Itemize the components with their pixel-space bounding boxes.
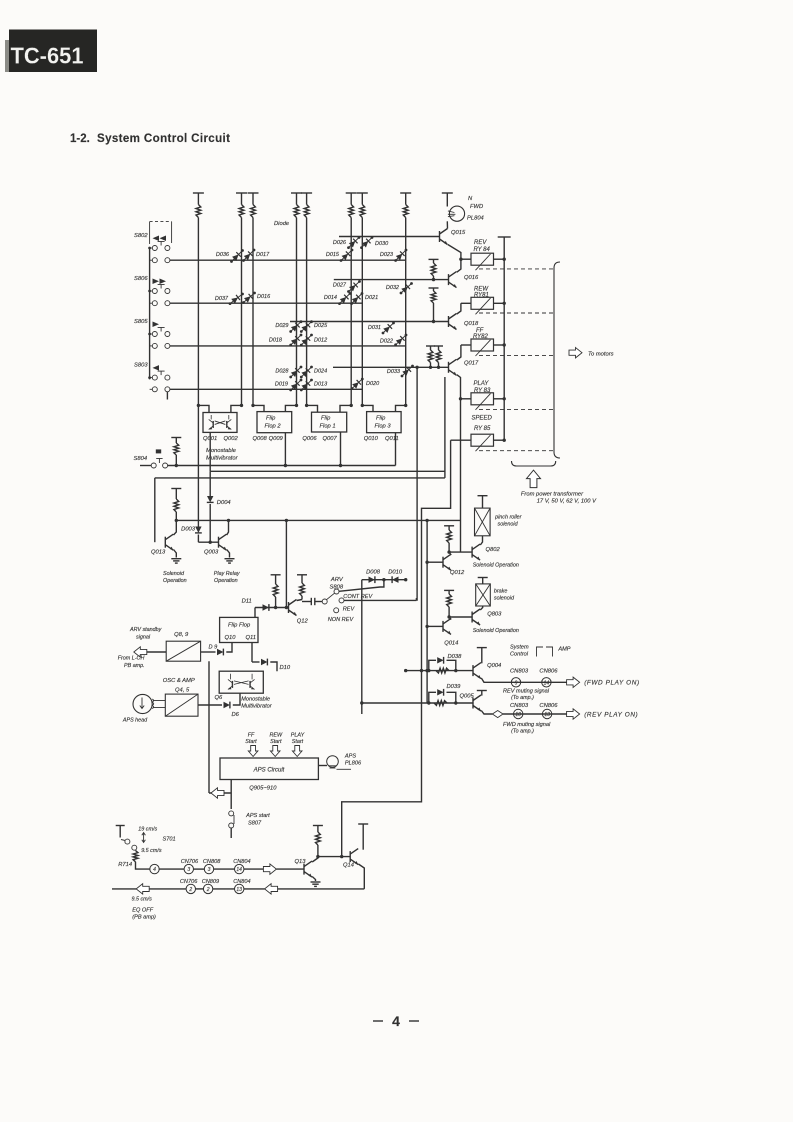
diode D026 — [349, 238, 360, 248]
svg-text:4: 4 — [392, 1013, 400, 1029]
svg-text:D017: D017 — [256, 252, 270, 258]
wire Q012 collector node to Q802 base — [449, 551, 472, 553]
wire RY84 leads — [461, 258, 471, 260]
svg-text:D11: D11 — [242, 599, 252, 605]
wire S808 arm — [327, 593, 335, 600]
svg-text:14: 14 — [544, 680, 550, 686]
wire Q803 collector to solenoid — [480, 606, 482, 610]
svg-text:REV muting signal: REV muting signal — [503, 689, 550, 695]
connector CN706 pin 4 — [150, 864, 159, 873]
svg-text:D013: D013 — [314, 382, 328, 388]
svg-text:(REV PLAY ON): (REV PLAY ON) — [584, 712, 638, 719]
dashed armature line RY84 — [479, 268, 554, 270]
svg-text:D012: D012 — [314, 338, 327, 344]
wire from collector row down to Q12 base — [285, 520, 287, 607]
transistor Q802 — [471, 547, 473, 558]
transistor Q013 — [164, 537, 166, 548]
svg-text:Operation: Operation — [214, 578, 238, 584]
resistor collector load of Q012 — [444, 525, 454, 527]
resistor feeding Q016 base — [429, 258, 439, 260]
transistor Q003 — [218, 537, 220, 548]
arrow from power transformer — [527, 470, 541, 488]
wire FF1 top leads — [307, 405, 318, 412]
diode D024 — [301, 367, 311, 377]
svg-text:Q6: Q6 — [215, 695, 224, 701]
resistor on matrix column 1 — [196, 205, 201, 218]
svg-text:13: 13 — [236, 887, 242, 893]
wire MM1 bottom lead — [209, 432, 211, 471]
wire Q014 collector — [449, 617, 451, 620]
svg-text:PLAY: PLAY — [291, 732, 305, 738]
wire row 4 (S803 line) — [170, 388, 362, 390]
wire row 2 (S806 FF line) — [170, 302, 362, 304]
svg-text:solenoid: solenoid — [494, 596, 515, 602]
ground below Q13 — [311, 881, 321, 883]
svg-text:Q008: Q008 — [253, 436, 268, 442]
supply cap of matrix column 5 — [301, 192, 312, 194]
wire FF2 top leads — [253, 405, 264, 411]
svg-text:Q016: Q016 — [464, 275, 479, 281]
diode D015 — [341, 250, 352, 261]
svg-text:Q802: Q802 — [486, 547, 501, 553]
svg-text:APS start: APS start — [245, 813, 270, 819]
diode D028 — [291, 367, 301, 377]
svg-text:EQ OFF: EQ OFF — [132, 908, 153, 914]
svg-text:Q4, 5: Q4, 5 — [175, 688, 190, 694]
diode D11 — [263, 604, 269, 610]
resistor on matrix column 6 — [349, 205, 354, 218]
wire matrix column 6 vertical — [350, 193, 352, 205]
svg-text:Q015: Q015 — [451, 230, 466, 236]
connector row 2 wire — [278, 888, 365, 890]
svg-text:OSC & AMP: OSC & AMP — [163, 678, 195, 684]
wire matrix column 1 vertical — [197, 193, 199, 205]
svg-text:Q010: Q010 — [364, 436, 379, 442]
svg-text:D020: D020 — [366, 381, 380, 387]
svg-text:brake: brake — [494, 589, 508, 595]
transistor Q017 — [448, 362, 450, 373]
svg-text:CONT REV: CONT REV — [343, 594, 373, 600]
svg-text:CN804: CN804 — [233, 879, 250, 885]
wire Q13 emitter to ground — [312, 877, 315, 882]
wire CONT contact to D008/D010 junction — [339, 580, 384, 592]
wire row 3 (S805 PLAY line) — [170, 345, 406, 347]
svg-text:Q004: Q004 — [487, 663, 501, 669]
svg-text:Flip: Flip — [321, 416, 331, 422]
svg-text:Monostable: Monostable — [241, 697, 270, 703]
resistor above Q13 collector — [313, 825, 323, 827]
wire Q003 emitter to ground — [227, 550, 230, 558]
svg-text:Q007: Q007 — [323, 436, 338, 442]
svg-text:D022: D022 — [380, 339, 393, 345]
arrow ARV standby input — [134, 647, 147, 657]
wire Q013 base drop — [154, 478, 156, 542]
arrow REV PLAY ON — [567, 709, 580, 719]
wire Q003 collector — [227, 520, 229, 535]
svg-text:NON REV: NON REV — [328, 617, 355, 623]
svg-text:System Control Circuit: System Control Circuit — [97, 132, 230, 145]
svg-text:13: 13 — [544, 712, 550, 718]
svg-text:(To amp.): (To amp.) — [511, 729, 534, 735]
svg-text:Diode: Diode — [274, 221, 290, 227]
svg-text:Q11: Q11 — [246, 635, 257, 641]
transistor Q004 — [472, 665, 474, 676]
diode D038 speedup branch — [429, 660, 436, 670]
wire APS head to OSC box — [153, 700, 166, 702]
TC-651 model label box — [9, 30, 97, 73]
svg-text:solenoid: solenoid — [498, 522, 519, 528]
svg-text:D019: D019 — [275, 382, 288, 388]
supply cap of matrix column 2 — [236, 192, 247, 194]
svg-text:Q011: Q011 — [385, 436, 399, 442]
svg-text:S806: S806 — [134, 276, 148, 282]
wire row A to Q015 base — [339, 236, 440, 238]
resistor on matrix column 5 — [304, 205, 309, 218]
resistor on matrix column 3 — [251, 205, 256, 218]
supply cap of lamp PL804 column — [442, 192, 453, 194]
svg-text:Q803: Q803 — [487, 612, 502, 618]
transistor Q14 — [349, 851, 351, 862]
diode D019 — [291, 380, 301, 390]
svg-text:FWD muting signal: FWD muting signal — [503, 722, 551, 728]
supply cap above Q14 collector — [358, 823, 368, 825]
resistor above S804 row — [171, 437, 181, 439]
svg-text:Control: Control — [510, 652, 529, 658]
svg-text:D033: D033 — [387, 369, 401, 375]
wire REV riser x416.4 — [415, 367, 418, 600]
svg-text:pinch roller: pinch roller — [494, 515, 522, 521]
wire play path x460.5 Q017 emitter to Q802 node — [457, 375, 461, 552]
wire common row y478 — [155, 477, 445, 479]
svg-text:D037: D037 — [215, 296, 229, 302]
svg-text:D028: D028 — [275, 369, 289, 375]
APS head symbol — [133, 694, 152, 713]
svg-text:D039: D039 — [447, 684, 462, 690]
svg-text:Q14: Q14 — [343, 863, 354, 869]
svg-text:S701: S701 — [163, 837, 176, 843]
svg-text:Start: Start — [292, 739, 304, 745]
svg-text:(FWD PLAY ON): (FWD PLAY ON) — [584, 680, 640, 687]
svg-text:CN806: CN806 — [539, 669, 558, 675]
wire collector row y520 — [176, 519, 460, 521]
svg-text:D032: D032 — [386, 285, 399, 291]
svg-text:D021: D021 — [365, 295, 378, 301]
brake solenoid — [478, 577, 488, 579]
switch S807 APS start — [229, 811, 234, 816]
diode D008 — [369, 577, 375, 583]
svg-text:Q905~910: Q905~910 — [249, 786, 277, 792]
svg-text:9: 9 — [515, 680, 518, 686]
wire Q017 collector to RY82 — [457, 345, 461, 360]
wire Q015 emitter to RY84 lead — [448, 245, 461, 260]
svg-text:Flop 3: Flop 3 — [375, 424, 392, 430]
svg-text:APS Circuit: APS Circuit — [253, 768, 285, 774]
svg-text:Q017: Q017 — [464, 361, 479, 367]
diode D021 — [352, 294, 363, 304]
svg-text:S803: S803 — [134, 363, 148, 369]
svg-text:S807: S807 — [248, 821, 262, 827]
wire column x198 down to D003 — [197, 405, 199, 526]
wire Q005 base row — [362, 702, 473, 704]
diode D004 — [207, 496, 213, 502]
svg-text:(PB amp): (PB amp) — [132, 915, 156, 921]
arrow on row 1 — [263, 864, 276, 874]
diode D6 — [198, 704, 222, 706]
svg-text:Multivibrator: Multivibrator — [241, 704, 273, 710]
diode D012 — [301, 335, 311, 345]
wire matrix column 7 vertical — [361, 193, 363, 205]
resistors feeding Q017 base (two parallel) — [426, 345, 435, 347]
svg-text:D025: D025 — [314, 323, 328, 329]
resistor above D11 line — [271, 574, 281, 576]
svg-text:Q13: Q13 — [295, 859, 307, 865]
svg-text:S808: S808 — [330, 585, 344, 591]
coupling capacitor — [302, 601, 311, 603]
svg-text:Solenoid Operation: Solenoid Operation — [473, 563, 519, 569]
wire FF2 bottom lead — [284, 433, 286, 466]
diamond junction on REV PLAY line — [492, 711, 503, 718]
svg-text:D016: D016 — [257, 294, 271, 300]
svg-text:Q006: Q006 — [302, 436, 317, 442]
supply cap of matrix column 3 — [248, 192, 259, 194]
diode D014 — [340, 294, 351, 304]
wire Q004 base row — [406, 670, 473, 672]
svg-text:To motors: To motors — [588, 352, 614, 358]
wire S804 row — [168, 465, 396, 467]
wire Q13 collector — [312, 857, 318, 862]
resistor collector load of Q014 — [444, 589, 454, 591]
wire matrix column 8 vertical — [405, 193, 407, 205]
wire Q013 emitter to ground — [174, 550, 177, 558]
diode D030 — [362, 238, 373, 248]
svg-text:signal: signal — [136, 635, 151, 641]
arrow on row 2 left — [136, 884, 149, 894]
svg-text:RY 84: RY 84 — [474, 247, 491, 253]
svg-text:10: 10 — [515, 712, 521, 718]
supply cap of matrix column 1 — [193, 192, 204, 194]
diode D017 — [244, 250, 255, 261]
svg-text:D 9: D 9 — [209, 645, 218, 651]
arrow FWD PLAY ON — [567, 677, 580, 687]
svg-text:PLAY: PLAY — [474, 381, 490, 387]
diode D016 — [244, 293, 255, 303]
svg-text:D024: D024 — [314, 369, 327, 375]
monostable multivibrator box Q001 Q002 — [203, 413, 237, 433]
svg-text:S804: S804 — [134, 456, 148, 462]
wire RY82 leads — [461, 344, 471, 346]
diode D033 — [402, 366, 413, 376]
wire RY83 leads — [461, 398, 472, 400]
svg-text:Q005: Q005 — [460, 694, 475, 700]
wire stub below S803 — [166, 392, 168, 400]
svg-text:FWD: FWD — [470, 204, 483, 210]
svg-text:D031: D031 — [368, 325, 381, 331]
wire REV contact line to riser — [344, 599, 416, 601]
wire emitters vertical x444.9 — [444, 377, 446, 478]
flip flop 2 box — [257, 412, 292, 433]
svg-text:CN706: CN706 — [181, 859, 199, 865]
resistor on matrix column 4 — [294, 205, 299, 218]
wire Q016 collector to RY84 — [457, 259, 461, 272]
wire matrix column 2 vertical — [241, 193, 243, 205]
svg-text:From power transformer: From power transformer — [521, 492, 584, 498]
diode D039 speedup branch — [429, 692, 436, 703]
svg-text:3: 3 — [187, 867, 190, 873]
svg-text:R714: R714 — [118, 862, 132, 868]
svg-text:Start: Start — [270, 739, 282, 745]
diode D031 — [383, 323, 394, 333]
svg-text:ARV: ARV — [330, 577, 344, 583]
svg-text:Q003: Q003 — [204, 550, 219, 556]
transistor Q014 — [442, 621, 444, 632]
wire RY81 leads — [461, 302, 471, 304]
wire matrix column 4 vertical — [296, 193, 298, 205]
wire amp output down left side — [208, 661, 210, 793]
arrow on row 2 right — [265, 884, 278, 894]
dashed armature line RY82 — [479, 354, 554, 356]
wire Q14 emitter down to row 2 — [358, 864, 364, 889]
svg-text:Flip: Flip — [266, 416, 276, 422]
wire Q012 collector — [449, 552, 451, 555]
wire RY85 leads — [451, 439, 471, 441]
lamp PL804 — [449, 206, 464, 221]
svg-text:D026: D026 — [333, 240, 347, 246]
supply cap Q004 collector — [477, 647, 487, 649]
svg-text:From L-CH: From L-CH — [118, 656, 145, 662]
diode D020 — [352, 379, 362, 389]
svg-text:Q012: Q012 — [450, 570, 465, 576]
transistor Q005 — [472, 698, 474, 709]
OSC & AMP box — [165, 694, 198, 716]
svg-text:D6: D6 — [232, 712, 240, 718]
wire D004 branch — [209, 471, 211, 496]
diode D032 — [401, 284, 412, 294]
svg-text:Flop 1: Flop 1 — [320, 424, 336, 430]
svg-text:Q014: Q014 — [444, 641, 458, 647]
svg-text:9.5 cm/s: 9.5 cm/s — [141, 848, 162, 854]
wire x362 from D008 row down to Q005 base row — [361, 580, 363, 714]
svg-text:D10: D10 — [280, 665, 291, 671]
resistor on matrix column 2 — [239, 205, 244, 218]
svg-text:Play Relay: Play Relay — [214, 571, 240, 577]
transistor Q13 — [303, 864, 305, 875]
diode D037 — [230, 294, 243, 304]
wire speed path x421.5 down to Q13/Q14 — [342, 440, 451, 856]
wire FF(Q10Q11) top lead to D11 line — [254, 608, 256, 618]
wire Q014 base row — [427, 625, 443, 627]
bracket to motors — [554, 262, 560, 268]
diode D003 — [195, 527, 201, 533]
svg-text:Solenoid: Solenoid — [163, 571, 185, 577]
supply cap of matrix column 8 — [400, 192, 411, 194]
resistor above Q013 — [171, 488, 181, 490]
wire lamp to Q015 collector — [446, 221, 448, 228]
svg-text:AMP: AMP — [557, 647, 570, 653]
svg-text:D027: D027 — [333, 283, 347, 289]
svg-text:CN804: CN804 — [233, 859, 250, 865]
transistor Q015 — [439, 231, 441, 242]
svg-text:PL806: PL806 — [345, 761, 362, 767]
lamp APS PL806 — [318, 765, 327, 767]
svg-text:Q12: Q12 — [297, 619, 309, 625]
svg-text:D023: D023 — [380, 252, 394, 258]
svg-text:TC-651: TC-651 — [11, 43, 84, 69]
switch common chain wire (left side of pushbuttons) — [149, 248, 151, 379]
svg-text:PB amp.: PB amp. — [124, 663, 145, 669]
resistor R714 — [135, 849, 137, 851]
wire FF3 bottom lead — [395, 433, 397, 466]
resistor above Q12 collector — [297, 574, 307, 576]
svg-text:D010: D010 — [388, 570, 403, 576]
svg-text:4: 4 — [153, 867, 156, 873]
wire row D to Q017 base — [333, 366, 449, 368]
transistor Q803 — [471, 612, 473, 623]
wire Q003 base link — [198, 541, 218, 543]
dashed armature line RY81 — [479, 312, 554, 314]
svg-text:14: 14 — [236, 867, 242, 873]
arrow into APS circuit bottom — [209, 792, 231, 794]
APS circuit box — [220, 758, 318, 780]
wire FF1 bottom lead — [340, 432, 342, 466]
wire Q013 collector — [174, 520, 177, 535]
svg-text:D029: D029 — [275, 323, 288, 329]
transistor Q012 — [442, 557, 444, 568]
wire D008/D010 row — [362, 579, 406, 581]
pinch roller solenoid — [478, 495, 488, 497]
svg-text:19 cm/s: 19 cm/s — [138, 827, 157, 833]
wire Q018 collector to RY81 — [457, 303, 461, 314]
wire Q13 collector to Q14 base — [318, 856, 350, 858]
wire Q802 collector to solenoid — [480, 536, 482, 545]
wire x427 riser feeding Q012/Q014 bases — [426, 520, 428, 703]
svg-text:D038: D038 — [448, 654, 463, 660]
transistor Q018 — [448, 316, 450, 327]
resistor in Q004 base line — [436, 668, 449, 673]
switch S701 speed select — [116, 825, 125, 827]
wire Q12 collector — [297, 600, 302, 601]
svg-text:ARV standby: ARV standby — [129, 627, 162, 633]
dashed armature line RY85 — [479, 450, 554, 452]
svg-text:Flop 2: Flop 2 — [265, 424, 282, 430]
svg-text:2: 2 — [188, 887, 192, 893]
svg-text:PL804: PL804 — [467, 216, 484, 222]
svg-text:9.5 cm/s: 9.5 cm/s — [132, 897, 153, 903]
svg-text:Q018: Q018 — [464, 321, 479, 327]
flip flop box Q10 Q11 — [220, 617, 258, 642]
diode D010 — [392, 577, 398, 583]
svg-text:FF: FF — [248, 732, 255, 738]
wire row B to Q016 base — [334, 279, 449, 281]
diode D036 — [232, 251, 243, 262]
wire Q012 base row — [427, 561, 443, 563]
resistor feeding Q018 base — [429, 287, 439, 289]
mechanical link dashes above S802 — [150, 221, 172, 223]
supply cap of matrix column 7 — [357, 192, 368, 194]
supply cap of matrix column 6 — [346, 192, 357, 194]
wire row C to Q018 base — [290, 321, 449, 323]
diode D9 — [201, 651, 216, 653]
To motors arrow — [569, 348, 582, 358]
wire APS box bottom lead to S807 — [230, 780, 232, 810]
svg-text:System: System — [510, 645, 529, 651]
svg-text:Solenoid Operation: Solenoid Operation — [473, 628, 519, 634]
diode D022 — [396, 335, 406, 345]
transistor Q12 — [288, 602, 290, 613]
wire R714 to connector row 1 — [136, 862, 151, 869]
diode D10 — [251, 643, 253, 663]
svg-text:Flip Flop: Flip Flop — [228, 623, 251, 629]
svg-text:3: 3 — [208, 867, 211, 873]
